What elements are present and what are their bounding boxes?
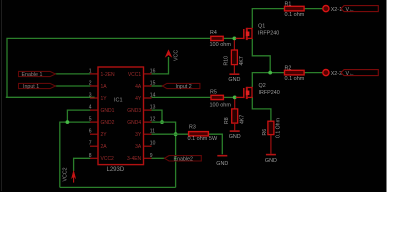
svg-text:100 ohm: 100 ohm bbox=[210, 102, 232, 108]
ground GND (below R10) bbox=[228, 74, 240, 83]
wire: R4 to gate junction bbox=[223, 37, 236, 39]
svg-text:GND1: GND1 bbox=[101, 108, 115, 114]
svg-text:Q1: Q1 bbox=[258, 23, 265, 29]
svg-text:GND4: GND4 bbox=[127, 120, 141, 126]
svg-text:4A: 4A bbox=[135, 84, 142, 90]
svg-text:6: 6 bbox=[89, 129, 92, 135]
svg-text:Q2: Q2 bbox=[259, 83, 266, 89]
svg-text:R3: R3 bbox=[189, 124, 196, 130]
svg-text:2Y: 2Y bbox=[101, 132, 108, 138]
wire: pin9 3-4EN to Enable2 flag bbox=[152, 157, 166, 159]
svg-text:IC1: IC1 bbox=[114, 97, 123, 103]
svg-text:3Y: 3Y bbox=[135, 132, 142, 138]
svg-text:1: 1 bbox=[89, 68, 92, 74]
junction R8/gate bbox=[233, 96, 237, 100]
label flag Input 2 bbox=[162, 83, 200, 90]
resistor R2 bbox=[285, 66, 305, 82]
pin 9 (3-4EN) bbox=[127, 153, 153, 162]
pin 7 (2A) bbox=[89, 141, 108, 150]
svg-text:2A: 2A bbox=[101, 144, 108, 150]
svg-text:100 ohm: 100 ohm bbox=[210, 42, 232, 48]
wire: pin14 4Y to R5 bbox=[152, 96, 212, 98]
pin 13 (GND3) bbox=[127, 105, 155, 114]
svg-text:9: 9 bbox=[150, 153, 153, 159]
label flag Enable2 bbox=[165, 156, 202, 163]
svg-text:VCC2: VCC2 bbox=[63, 167, 69, 181]
svg-text:0.1 ohm: 0.1 ohm bbox=[285, 76, 305, 82]
junction output row bbox=[268, 71, 272, 75]
svg-text:7: 7 bbox=[89, 141, 92, 147]
svg-text:GND: GND bbox=[216, 161, 228, 167]
label flag Input 1 bbox=[19, 83, 56, 90]
svg-text:15: 15 bbox=[150, 81, 156, 87]
svg-text:1A: 1A bbox=[101, 84, 108, 90]
net flag V (top) bbox=[341, 6, 378, 13]
pin 6 (2Y) bbox=[89, 129, 108, 138]
svg-text:VCC2: VCC2 bbox=[101, 156, 115, 162]
svg-text:X2-2: X2-2 bbox=[331, 71, 342, 77]
svg-text:8: 8 bbox=[89, 153, 92, 159]
pin 12 (GND4) bbox=[127, 117, 155, 126]
wire: Q1 source jog down to output row bbox=[252, 39, 270, 73]
wire: pin16 VCC1 right then up to VCC bbox=[152, 57, 169, 74]
svg-text:R4: R4 bbox=[210, 30, 217, 36]
resistor R8 (vertical) + pins bbox=[224, 97, 246, 130]
junction pin13/pin12 bbox=[160, 120, 164, 124]
wire: R2 to X2-2 pad bbox=[304, 72, 322, 74]
transistor Q2 IRFP240 bbox=[236, 83, 280, 99]
resistor R4 bbox=[210, 30, 232, 48]
pin 10 (3A) bbox=[135, 141, 156, 150]
svg-text:R10: R10 bbox=[224, 56, 230, 66]
svg-text:11: 11 bbox=[150, 129, 155, 135]
svg-text:GND: GND bbox=[265, 158, 277, 164]
svg-text:V←: V← bbox=[346, 71, 355, 77]
svg-text:GND: GND bbox=[229, 134, 241, 140]
resistor R10 (vertical) + pins bbox=[224, 38, 246, 73]
svg-text:12: 12 bbox=[150, 117, 156, 123]
svg-text:0.1 ohm 5W: 0.1 ohm 5W bbox=[188, 136, 218, 142]
wire: big loop 1Y to R4 (vertical left + top horizontal) bbox=[7, 38, 211, 97]
svg-text:1-2EN: 1-2EN bbox=[101, 72, 116, 78]
junction GND net at R3 row bbox=[174, 132, 178, 136]
wire: R1 to X2-1 pad bbox=[304, 8, 322, 10]
svg-text:4Y: 4Y bbox=[135, 96, 142, 102]
wire: pin12 GND4 right then down bbox=[152, 122, 176, 134]
svg-text:0.1 Ohm: 0.1 Ohm bbox=[275, 118, 281, 138]
wire: R3 right to GND drop bbox=[208, 134, 222, 154]
wire: pin5 GND2 left then down to bottom rail bbox=[60, 122, 91, 187]
svg-text:GND2: GND2 bbox=[101, 120, 115, 126]
wire: pin4 GND1 left then down bbox=[67, 110, 90, 122]
wire: Q2 source down jog to R6 bbox=[252, 97, 271, 121]
pin 15 (4A) bbox=[135, 81, 156, 90]
pin 2 (1A) bbox=[89, 81, 108, 90]
wire: pin15 4A to Input 2 flag bbox=[152, 85, 164, 87]
ground GND (below R8) bbox=[229, 131, 241, 140]
pin 8 (VCC2) bbox=[89, 153, 114, 162]
svg-text:5: 5 bbox=[89, 117, 92, 123]
svg-text:3A: 3A bbox=[135, 144, 142, 150]
svg-text:R6: R6 bbox=[262, 129, 268, 136]
net flag V (bottom) bbox=[341, 70, 378, 77]
svg-text:3-4EN: 3-4EN bbox=[127, 156, 142, 162]
svg-text:GND3: GND3 bbox=[127, 108, 141, 114]
wire: rail up to R3 row bbox=[175, 134, 177, 187]
svg-text:2: 2 bbox=[89, 81, 92, 87]
wire: pin3 1Y row to loop bbox=[6, 96, 95, 98]
svg-text:L293D: L293D bbox=[107, 167, 125, 173]
IC IC1 box bbox=[98, 67, 144, 165]
svg-text:1Y: 1Y bbox=[101, 96, 108, 102]
svg-text:V←: V← bbox=[346, 7, 355, 13]
transistor Q1 IRFP240 bbox=[236, 23, 280, 40]
pad X2-2 bbox=[323, 70, 342, 77]
svg-text:13: 13 bbox=[150, 105, 156, 111]
svg-text:10: 10 bbox=[150, 141, 156, 147]
pin 14 (4Y) bbox=[135, 93, 156, 102]
wire: pin8 VCC2 left then down to supply bbox=[74, 158, 91, 171]
wire: pin13 GND3 right then down bbox=[152, 110, 163, 122]
svg-text:0.1 ohm: 0.1 ohm bbox=[285, 12, 305, 18]
svg-text:3: 3 bbox=[89, 93, 92, 99]
junction R10/gate bbox=[233, 37, 237, 41]
svg-text:Input 2: Input 2 bbox=[176, 84, 192, 90]
pad X2-1 bbox=[323, 6, 342, 13]
svg-text:16: 16 bbox=[150, 68, 156, 74]
wire: Q1 drain up and right to R1 bbox=[252, 9, 284, 28]
junction pin4/pin5 bbox=[66, 120, 70, 124]
svg-text:VCC: VCC bbox=[174, 50, 180, 61]
wire: R5 to gate junction bbox=[223, 96, 236, 98]
svg-text:Enable2: Enable2 bbox=[174, 156, 193, 162]
pin 5 (GND2) bbox=[89, 117, 115, 126]
pin 16 (VCC1) bbox=[128, 68, 156, 77]
svg-text:VCC1: VCC1 bbox=[128, 72, 142, 78]
svg-text:4: 4 bbox=[89, 105, 92, 111]
wire: pin11 3Y to R3 bbox=[152, 133, 189, 135]
svg-text:X2-1: X2-1 bbox=[331, 7, 342, 13]
pin 11 (3Y) bbox=[135, 129, 155, 138]
ground GND (below R3 drop) bbox=[216, 156, 228, 167]
wire: output row to R2 and Q2 drain bbox=[252, 73, 284, 87]
ground GND (below R6) bbox=[265, 155, 277, 165]
resistor R5 bbox=[210, 90, 232, 109]
svg-text:Enable 1: Enable 1 bbox=[22, 72, 43, 78]
svg-text:4K7: 4K7 bbox=[239, 56, 245, 65]
svg-text:GND: GND bbox=[228, 77, 240, 83]
schematic background bbox=[0, 0, 387, 192]
svg-text:IRFP240: IRFP240 bbox=[259, 90, 280, 96]
label flag Enable 1 bbox=[19, 71, 56, 78]
svg-text:4K7: 4K7 bbox=[239, 115, 245, 124]
svg-text:Input 1: Input 1 bbox=[23, 84, 39, 90]
wire: Input 1 to pin2 bbox=[55, 85, 91, 87]
svg-text:14: 14 bbox=[150, 93, 156, 99]
resistor R3 bbox=[188, 124, 218, 141]
supply VCC symbol bbox=[166, 50, 180, 61]
left window edge line bbox=[1, 0, 2, 191]
svg-text:R8: R8 bbox=[224, 117, 230, 124]
supply VCC2 symbol bbox=[63, 167, 76, 182]
pin 4 (GND1) bbox=[89, 105, 115, 114]
pin 3 (1Y) bbox=[89, 93, 108, 102]
wire: Enable 1 to pin1 bbox=[55, 73, 91, 75]
pin 1 (1-2EN) bbox=[89, 68, 115, 77]
resistor R1 bbox=[285, 2, 305, 18]
wire: bottom ground rail bbox=[60, 186, 176, 188]
svg-text:IRFP240: IRFP240 bbox=[258, 30, 279, 36]
resistor R6 (vertical) + pins bbox=[262, 118, 282, 154]
